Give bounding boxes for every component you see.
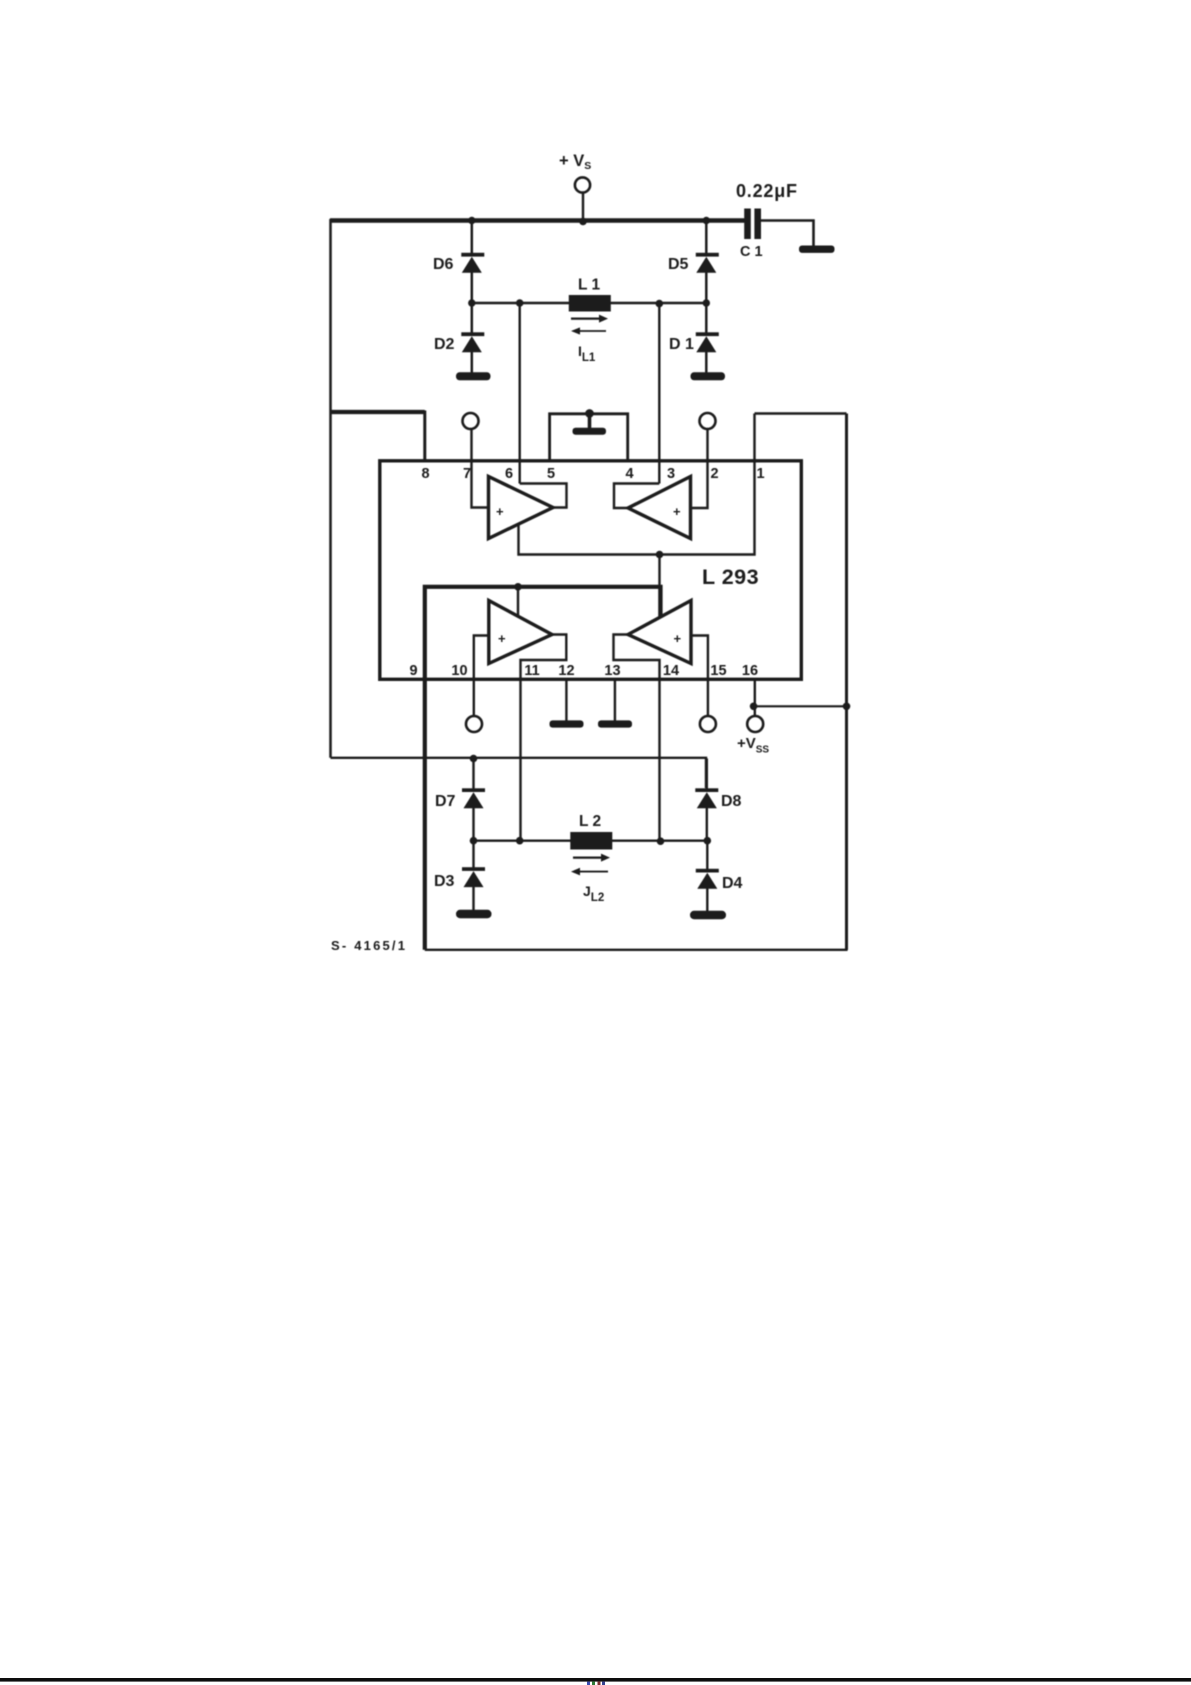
- pin 2 input terminal: [691, 413, 716, 508]
- svg-text:L 2: L 2: [579, 813, 601, 830]
- svg-text:3: 3: [667, 466, 675, 482]
- node dots on L2 rail: [470, 837, 711, 845]
- pin numbers bottom row: [409, 663, 758, 679]
- label IL1: [578, 343, 596, 364]
- svg-text:D 1: D 1: [669, 336, 694, 353]
- svg-text:D8: D8: [721, 793, 742, 810]
- wire pin 1 to Vss right rail: [755, 412, 847, 415]
- wire enable net pin 1: [519, 414, 755, 618]
- svg-text:D4: D4: [722, 875, 743, 892]
- wire pins 5-4 ground bracket: [550, 409, 628, 461]
- svg-text:10: 10: [451, 663, 467, 679]
- svg-text:15: 15: [710, 663, 726, 679]
- diode D4: [696, 841, 743, 912]
- svg-text:L 293: L 293: [702, 565, 759, 589]
- node junction dot on rail at D6: [468, 217, 475, 224]
- svg-text:2: 2: [710, 466, 718, 482]
- wire from C1 to ground: [761, 221, 814, 247]
- ground after C1: [799, 246, 835, 253]
- wire pin 16 to right rail: [754, 703, 851, 711]
- svg-text:8: 8: [421, 466, 429, 482]
- svg-text:L 1: L 1: [578, 277, 600, 294]
- wire amp A output to pin 6: [520, 484, 567, 508]
- svg-text:+: +: [674, 631, 682, 646]
- wire left supply rail: [329, 219, 332, 758]
- label schematic number S-4165/1: [331, 938, 407, 953]
- ground under D4: [690, 911, 726, 919]
- current arrow IL2 right: [573, 854, 610, 862]
- diode D8: [695, 759, 741, 841]
- diode D6: [433, 222, 484, 303]
- svg-text:+ VS: + VS: [559, 152, 591, 172]
- current arrow IL1 left: [571, 327, 606, 334]
- diode D3: [434, 841, 485, 911]
- wire load L2 node rail: [474, 840, 708, 842]
- diode D5: [668, 222, 719, 303]
- wire enable net pin 9: [425, 583, 661, 950]
- svg-text:IL1: IL1: [578, 343, 596, 364]
- op-amp driver C (bottom left): [489, 601, 552, 664]
- svg-text:D7: D7: [435, 793, 456, 810]
- svg-text:9: 9: [409, 663, 417, 679]
- svg-text:C 1: C 1: [740, 244, 763, 260]
- current arrow IL2 left: [571, 868, 608, 876]
- pin numbers top row: [421, 466, 764, 482]
- wire +Vs top supply rail: [330, 218, 745, 223]
- terminal +Vs: [559, 152, 591, 218]
- svg-text:S- 4165/1: S- 4165/1: [331, 938, 407, 953]
- wire pin 8 supply connection: [331, 411, 425, 462]
- op-amp driver B (top right): [628, 477, 691, 539]
- wire bottom enable return: [425, 949, 848, 951]
- wire load L1 node rail: [472, 302, 707, 305]
- current arrow IL1 right: [571, 315, 608, 323]
- svg-text:+: +: [498, 631, 506, 646]
- svg-text:D5: D5: [668, 256, 689, 273]
- wire amp C output to pin 11: [521, 635, 567, 841]
- svg-text:6: 6: [505, 466, 513, 482]
- pin 15 input terminal: [691, 636, 716, 733]
- inductor L1: [569, 277, 611, 312]
- svg-text:12: 12: [558, 663, 574, 679]
- pin 16 +Vss terminal: [737, 680, 769, 756]
- inductor L2: [570, 813, 612, 850]
- capacitor C1 0.22uF: [736, 181, 798, 260]
- diode D2: [434, 303, 484, 374]
- pin 10 input terminal: [466, 636, 489, 733]
- ground under D1: [691, 372, 726, 380]
- svg-text:D2: D2: [434, 336, 455, 353]
- page number fragment: [587, 1682, 605, 1685]
- wire pin 3 output to L1 right: [658, 303, 660, 484]
- op-amp driver A (top left): [489, 477, 554, 539]
- svg-text:5: 5: [547, 466, 555, 482]
- node junction dot on rail at +Vs stem: [579, 218, 587, 226]
- svg-text:14: 14: [663, 663, 679, 679]
- pin 12 ground: [550, 680, 584, 728]
- node dots on L1 rail: [468, 299, 710, 307]
- svg-text:D6: D6: [433, 256, 454, 273]
- svg-text:JL2: JL2: [583, 883, 604, 904]
- svg-text:16: 16: [742, 663, 758, 679]
- pin 7 input terminal: [463, 413, 489, 508]
- svg-text:11: 11: [524, 663, 539, 679]
- svg-text:D3: D3: [434, 873, 455, 890]
- svg-text:+VSS: +VSS: [737, 735, 769, 756]
- wire lower supply line: [331, 755, 707, 788]
- svg-text:13: 13: [604, 663, 620, 679]
- svg-text:+: +: [496, 504, 504, 519]
- node junction dot on rail at D5: [703, 217, 710, 224]
- diode D7: [435, 759, 485, 841]
- ground symbol pins 5-4: [573, 428, 607, 435]
- svg-text:+: +: [673, 504, 681, 519]
- page footer rule: [0, 1678, 1191, 1682]
- op-amp driver D (bottom right): [628, 601, 691, 664]
- pin 13 ground: [598, 680, 632, 728]
- IC U1 L293 body: [380, 461, 802, 680]
- wire right rail: [845, 414, 848, 951]
- ground under D2: [456, 372, 491, 380]
- wire pin 6 output to L1 left: [519, 303, 521, 484]
- wire amp D output to pin 14: [614, 635, 660, 841]
- label JL2: [583, 883, 604, 904]
- wire amp B output to pin 3: [614, 484, 659, 509]
- svg-text:7: 7: [463, 466, 471, 482]
- ground under D3: [456, 910, 492, 918]
- svg-text:1: 1: [756, 466, 764, 482]
- diode D1: [669, 303, 719, 374]
- svg-text:4: 4: [625, 466, 633, 482]
- svg-text:0.22μF: 0.22μF: [736, 181, 798, 201]
